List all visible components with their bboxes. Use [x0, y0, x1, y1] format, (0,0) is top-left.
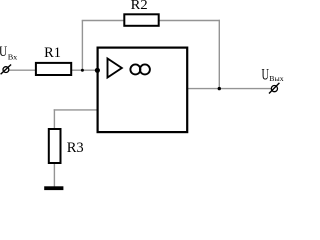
node junction dot inverting input — [95, 68, 100, 73]
wire input terminal to R1 — [9, 69, 36, 71]
wire feedback vertical left — [81, 21, 83, 71]
wire non-inverting input horizontal — [54, 109, 97, 111]
input terminal circle — [3, 67, 9, 73]
svg-text:U: U — [262, 67, 270, 84]
input terminal slash — [1, 65, 12, 75]
ground — [44, 186, 63, 190]
resistor R1 — [36, 63, 71, 75]
svg-text:U: U — [0, 44, 7, 60]
output terminal circle — [271, 86, 277, 92]
wire non-inverting input down to R3 — [53, 109, 55, 129]
op-amp triangle — [108, 59, 122, 78]
svg-text:Вх: Вх — [8, 53, 18, 62]
svg-text:R3: R3 — [67, 140, 84, 156]
svg-text:Вых: Вых — [269, 74, 284, 83]
svg-text:R2: R2 — [131, 0, 148, 13]
node junction dot R1/feedback — [81, 69, 84, 72]
output terminal slash — [269, 83, 279, 94]
wire R2 to feedback right corner — [159, 20, 220, 22]
wire feedback top left to R2 — [82, 20, 124, 22]
wire R3 to ground — [53, 163, 55, 187]
op-amp infinity symbol — [130, 64, 140, 74]
resistor R3 — [49, 129, 61, 163]
wire R1 to op-amp inverting input — [72, 69, 97, 71]
wire feedback vertical right down to output — [218, 20, 220, 89]
svg-text:R1: R1 — [44, 45, 61, 61]
resistor R2 — [124, 14, 158, 25]
wire op-amp output to terminal — [188, 88, 271, 90]
op-amp U1 body — [98, 48, 188, 133]
node junction dot output/feedback — [218, 87, 221, 90]
